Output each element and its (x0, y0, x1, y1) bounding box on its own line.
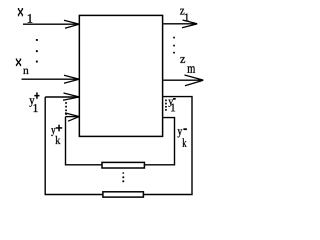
label x1 (18, 8, 23, 15)
wire yk- feedback (145, 118, 175, 165)
wire y1- feedback (144, 97, 192, 195)
dots delays (123, 172, 125, 173)
arrowhead xn (64, 75, 79, 83)
delay element k (103, 192, 143, 197)
dots inputs (36, 39, 38, 41)
label z1 (180, 9, 184, 15)
arrowhead zm (185, 75, 204, 86)
wire z1 (163, 23, 196, 25)
arrowhead z1 (182, 20, 197, 28)
label y1- (168, 100, 173, 107)
combinational logic block (79, 15, 162, 136)
wire yk+ feedback riser (66, 117, 102, 165)
wire y1+ feedback riser (45, 97, 103, 195)
wire y1+ (45, 96, 79, 98)
label zm (180, 57, 185, 63)
arrowhead x1 (64, 20, 79, 28)
dotted wire hint right (165, 100, 167, 102)
wire x1 (23, 23, 79, 25)
arrowhead y1+ (63, 93, 79, 100)
label y1+ (29, 98, 34, 106)
dotted wire hint left (65, 102, 67, 104)
wire xn (22, 78, 79, 80)
label xn (16, 59, 21, 66)
delay element 1 (102, 162, 144, 168)
wire yk+ (66, 116, 79, 118)
arrowhead yk+ (65, 113, 79, 121)
label yk+ (51, 128, 55, 136)
wire zm (163, 79, 202, 81)
label yk- (178, 129, 183, 137)
dots outputs (173, 37, 175, 39)
